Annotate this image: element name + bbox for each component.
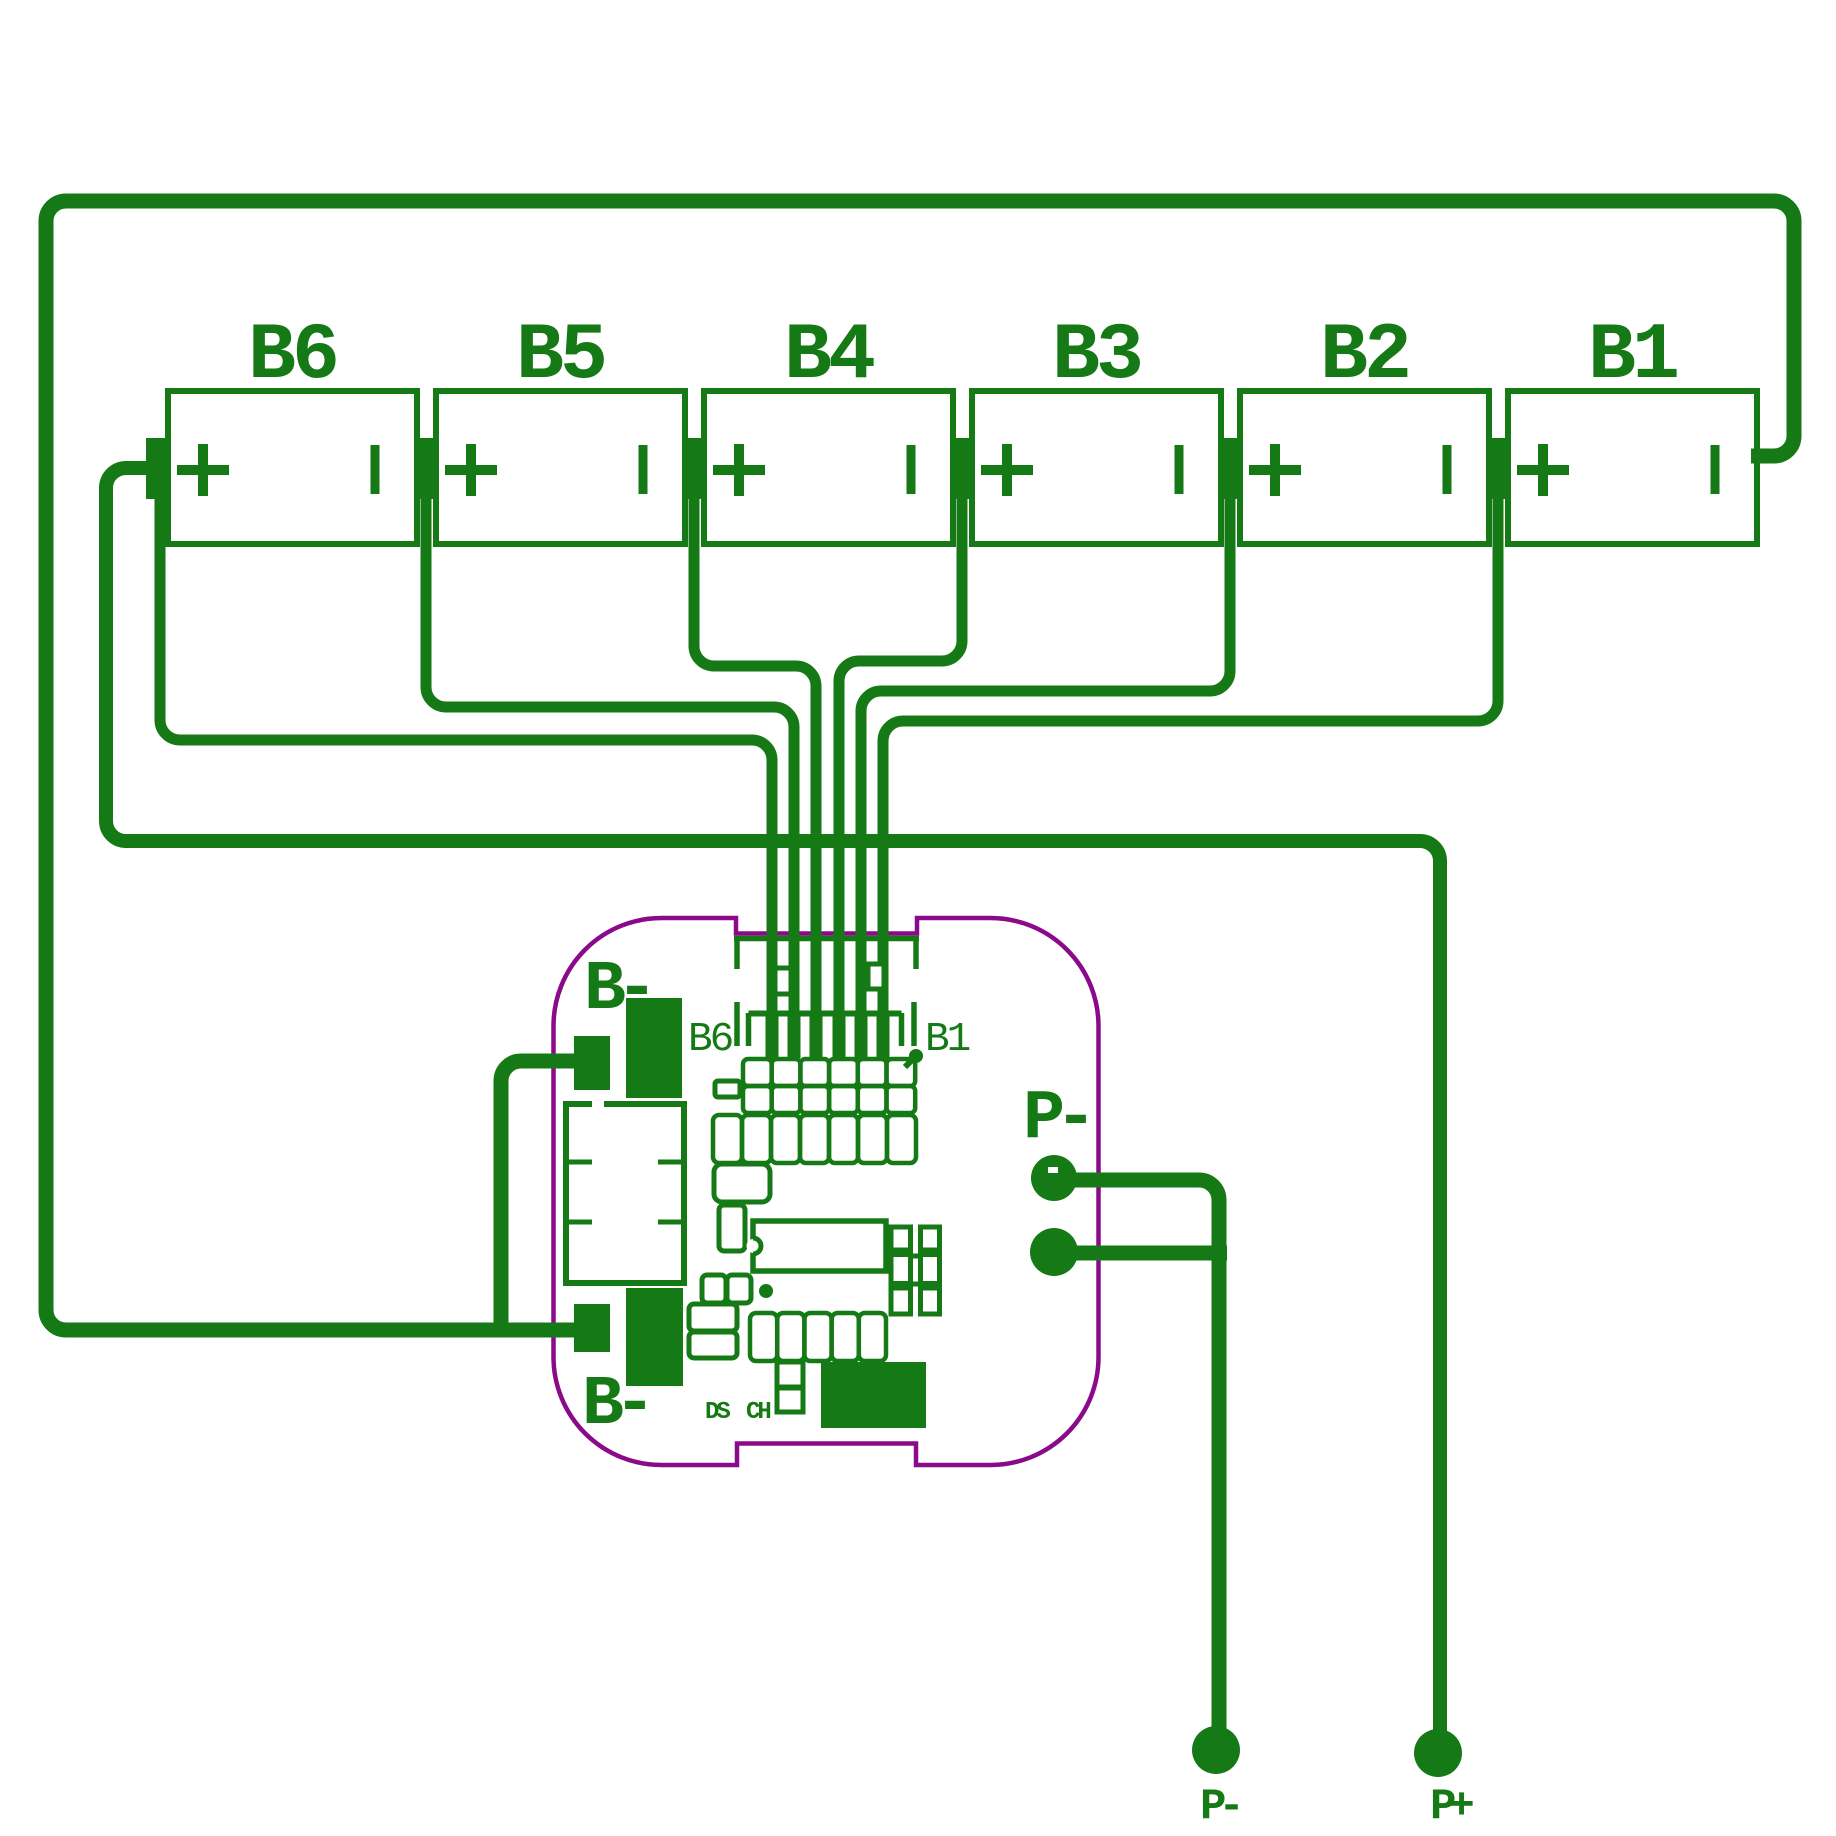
svg-text:B6: B6 [248,311,336,402]
svg-text:B-: B- [584,951,648,1030]
svg-text:CH: CH [746,1399,770,1426]
svg-text:B4: B4 [784,311,874,402]
svg-text:B6: B6 [688,1017,732,1063]
svg-text:DS: DS [705,1399,730,1426]
svg-text:B1: B1 [925,1017,970,1063]
svg-text:P-: P- [1023,1080,1087,1159]
svg-text:B5: B5 [516,311,604,402]
svg-text:B2: B2 [1320,311,1408,402]
svg-text:P-: P- [1200,1782,1238,1832]
svg-text:B-: B- [582,1366,646,1445]
svg-text:B1: B1 [1588,311,1677,402]
svg-text:B3: B3 [1052,311,1140,402]
